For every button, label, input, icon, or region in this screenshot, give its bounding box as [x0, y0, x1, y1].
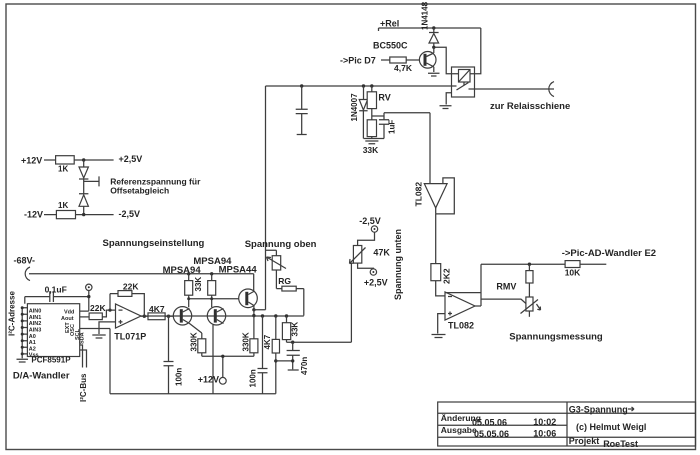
- svg-text:330K: 330K: [241, 332, 250, 351]
- svg-text:Spannung oben: Spannung oben: [245, 239, 317, 250]
- svg-text:470n: 470n: [300, 357, 309, 375]
- svg-text:4K7: 4K7: [263, 334, 272, 349]
- svg-text:+2,5V: +2,5V: [119, 154, 143, 164]
- svg-text:Vdd: Vdd: [64, 310, 74, 316]
- svg-text:I²C-Adresse: I²C-Adresse: [8, 291, 17, 336]
- svg-text:1uF: 1uF: [388, 120, 397, 134]
- svg-text:->Pic D7: ->Pic D7: [340, 56, 376, 66]
- svg-text:1K: 1K: [58, 165, 68, 174]
- svg-text:10:02: 10:02: [533, 417, 556, 427]
- svg-text:RG: RG: [278, 276, 291, 286]
- svg-text:05.05.06: 05.05.06: [472, 418, 507, 428]
- svg-text:TL082: TL082: [414, 182, 424, 207]
- svg-text:Ausgabe: Ausgabe: [441, 425, 477, 435]
- svg-text:4,7K: 4,7K: [394, 63, 413, 73]
- svg-text:+Rel: +Rel: [380, 19, 399, 29]
- svg-text:10:06: 10:06: [533, 429, 556, 439]
- svg-text:100n: 100n: [249, 369, 258, 387]
- svg-text:33K: 33K: [291, 322, 300, 337]
- svg-text:AIN2: AIN2: [29, 321, 42, 327]
- svg-text:Spannungseinstellung: Spannungseinstellung: [103, 238, 205, 249]
- svg-text:AIN3: AIN3: [29, 328, 42, 334]
- svg-text:MPSA44: MPSA44: [219, 264, 258, 275]
- svg-text:(c) Helmut Weigl: (c) Helmut Weigl: [576, 422, 646, 432]
- svg-text:1N4007: 1N4007: [350, 93, 359, 122]
- svg-text:33K: 33K: [363, 145, 379, 155]
- svg-text:A1: A1: [29, 340, 36, 346]
- svg-text:100n: 100n: [175, 368, 184, 386]
- svg-text:0,1uF: 0,1uF: [45, 285, 67, 295]
- svg-text:-2,5V: -2,5V: [359, 216, 381, 226]
- svg-text:A0: A0: [29, 334, 36, 340]
- svg-text:22K: 22K: [90, 303, 106, 313]
- svg-text:AIN1: AIN1: [29, 315, 42, 321]
- svg-text:Spannung unten: Spannung unten: [393, 229, 403, 300]
- svg-text:BC550C: BC550C: [373, 41, 408, 51]
- svg-text:PCF8591P: PCF8591P: [31, 356, 71, 365]
- svg-text:MPSA94: MPSA94: [163, 265, 202, 276]
- svg-text:2K2: 2K2: [442, 268, 452, 284]
- svg-text:+12V: +12V: [21, 156, 42, 166]
- svg-text:RoeTest: RoeTest: [603, 439, 638, 449]
- svg-text:-68V-: -68V-: [14, 256, 36, 266]
- svg-text:-12V: -12V: [24, 210, 43, 220]
- svg-text:22K: 22K: [123, 282, 139, 292]
- svg-text:47K: 47K: [373, 248, 390, 258]
- svg-text:Spannungsmessung: Spannungsmessung: [509, 332, 603, 343]
- svg-text:G3-Spannung: G3-Spannung: [569, 405, 628, 415]
- svg-text:4K7: 4K7: [149, 304, 165, 314]
- svg-text:10K: 10K: [565, 268, 581, 278]
- svg-text:Offsetabgleich: Offsetabgleich: [110, 186, 169, 196]
- svg-text:->Pic-AD-Wandler E2: ->Pic-AD-Wandler E2: [562, 248, 656, 259]
- svg-text:Projekt: Projekt: [569, 436, 600, 446]
- svg-text:TL082: TL082: [448, 321, 474, 331]
- svg-text:AIN0: AIN0: [29, 309, 42, 315]
- svg-text:TL071P: TL071P: [114, 332, 146, 342]
- svg-text:1K: 1K: [58, 201, 68, 210]
- svg-text:1N4148: 1N4148: [421, 1, 430, 30]
- svg-text:-2,5V: -2,5V: [119, 209, 141, 219]
- svg-text:zur Relaisschiene: zur Relaisschiene: [490, 101, 570, 112]
- svg-text:I²C-Bus: I²C-Bus: [79, 373, 88, 402]
- svg-text:+12V: +12V: [198, 375, 219, 385]
- svg-text:33K: 33K: [194, 277, 203, 292]
- svg-text:+2,5V: +2,5V: [364, 278, 388, 288]
- svg-text:D/A-Wandler: D/A-Wandler: [13, 371, 70, 382]
- svg-text:RMV: RMV: [496, 282, 516, 292]
- svg-text:Aout: Aout: [61, 316, 74, 322]
- svg-text:05.05.06: 05.05.06: [474, 429, 509, 439]
- svg-text:RV: RV: [378, 93, 390, 103]
- svg-text:SDA: SDA: [80, 332, 86, 344]
- svg-text:330K: 330K: [190, 332, 199, 351]
